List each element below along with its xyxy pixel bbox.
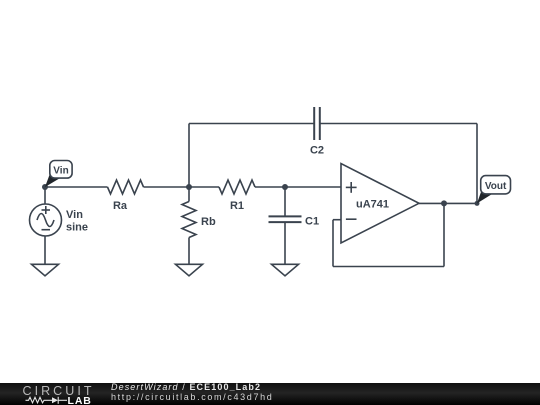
node Vout dot <box>475 201 480 206</box>
capacitor C2 <box>314 107 320 140</box>
resistor Rb <box>182 202 196 238</box>
svg-text:C2: C2 <box>310 145 324 157</box>
wire: top feedback right segment <box>320 123 477 125</box>
ground GND (below V1) <box>32 264 59 276</box>
capacitor C1 <box>269 216 302 222</box>
footer bar <box>0 383 540 405</box>
wire: node A to R1 <box>189 186 219 188</box>
net flag Vout <box>477 176 511 204</box>
wire: node B down to C1 <box>284 187 286 216</box>
svg-text:sine: sine <box>66 222 88 234</box>
wire: feedback right vertical up to node C <box>443 203 445 266</box>
svg-text:R1: R1 <box>230 200 244 212</box>
op-amp U1 (uA741) <box>341 164 419 244</box>
wire: negative input stub <box>333 219 341 221</box>
svg-text:uA741: uA741 <box>356 199 389 211</box>
svg-text:Ra: Ra <box>113 200 128 212</box>
wire: Rb to ground <box>188 238 190 265</box>
node A junction dot <box>186 184 192 190</box>
node C junction dot <box>441 200 447 206</box>
wire: Ra to node A <box>144 186 190 188</box>
wire: node A up to top feedback <box>188 124 190 188</box>
svg-text:C1: C1 <box>305 216 319 228</box>
ground GND (below C1) <box>272 264 299 276</box>
wire: feedback left vertical <box>332 220 334 267</box>
svg-text:Vin: Vin <box>66 209 83 221</box>
svg-text:Vout: Vout <box>485 181 507 192</box>
wire: node B to op-amp + input <box>285 186 341 188</box>
voltage source V1 (Vin sine) <box>30 187 62 264</box>
ground GND (below Rb) <box>176 264 203 276</box>
footer attribution text <box>111 382 273 402</box>
wire: top feedback left segment <box>189 123 314 125</box>
node Vin dot <box>42 184 48 190</box>
wire: top feedback down to Vout node <box>476 124 478 204</box>
net flag Vin <box>45 161 72 188</box>
wire: R1 to node B <box>255 186 285 188</box>
CircuitLab logo <box>10 383 110 405</box>
wire: op-amp output <box>419 202 477 204</box>
svg-text:Vin: Vin <box>53 165 68 176</box>
svg-text:LAB: LAB <box>68 395 92 405</box>
node B junction dot <box>282 184 288 190</box>
wire: node A down to Rb <box>188 187 190 202</box>
wire: C1 to ground <box>284 222 286 264</box>
svg-text:Rb: Rb <box>201 216 216 228</box>
resistor R1 <box>219 180 255 194</box>
wire: feedback bottom horizontal <box>333 266 444 268</box>
wire: Vin node to Ra <box>45 186 108 188</box>
resistor Ra <box>108 180 144 194</box>
